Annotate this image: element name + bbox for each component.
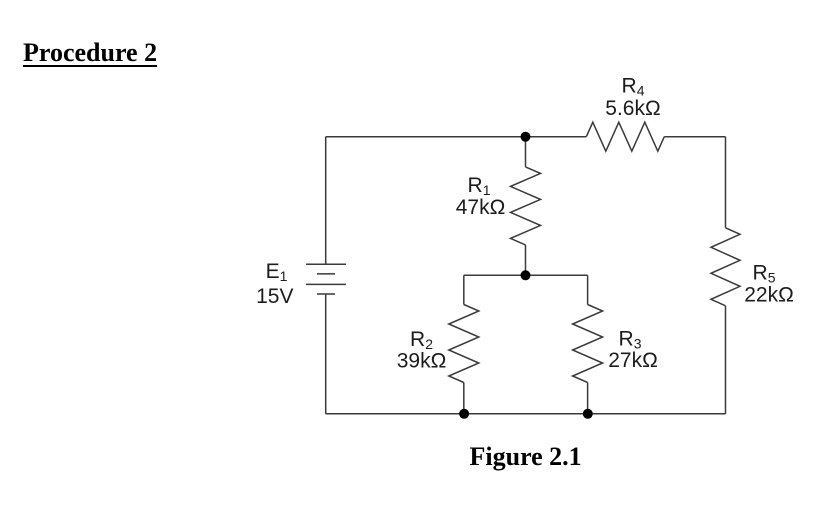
resistor R1 (511, 167, 541, 245)
svg-text:39kΩ: 39kΩ (397, 350, 447, 373)
resistor R2 (449, 305, 479, 383)
resistor R4 (586, 122, 664, 151)
wire R2 bottom lead (463, 383, 465, 414)
wire R1 bottom lead to node B (525, 245, 527, 275)
svg-text:27kΩ: 27kΩ (608, 349, 658, 372)
wire top rail right (R4 right lead to top-right corner) (664, 136, 725, 138)
caption Figure 2.1 (470, 442, 582, 472)
wire R3 bottom lead (587, 383, 589, 414)
node D junction dot (R3 bottom) (583, 409, 593, 419)
resistor R5 (711, 228, 740, 306)
node B junction dot (521, 270, 531, 280)
wire right rail lower (R5 bottom to bottom-right corner) (725, 306, 727, 414)
resistor R3 (573, 305, 603, 383)
svg-text:5.6kΩ: 5.6kΩ (605, 97, 660, 120)
wire right rail upper (corner down to R5 top) (725, 137, 727, 228)
wire top rail middle (node A to R4 left lead) (526, 136, 587, 138)
svg-text:R4: R4 (622, 75, 645, 99)
wire top rail left (top-left corner to node A) (326, 136, 526, 138)
wire left rail lower (bottom-left corner up to battery minus plate) (325, 294, 327, 414)
svg-text:R2: R2 (410, 328, 433, 352)
svg-text:R3: R3 (619, 328, 642, 352)
heading Procedure 2 (23, 40, 157, 68)
svg-text:R5: R5 (753, 262, 776, 286)
wire R2 top lead (463, 275, 465, 304)
svg-text:R1: R1 (468, 174, 491, 198)
svg-text:E1: E1 (266, 260, 288, 284)
battery E1 plates (306, 264, 346, 294)
node A junction dot (521, 132, 531, 142)
wire R3 top lead (587, 275, 589, 304)
wire node A to R1 top lead (525, 137, 527, 167)
wire node B horizontal rail (464, 274, 588, 276)
wire bottom rail (326, 413, 726, 415)
svg-text:15V: 15V (256, 285, 293, 308)
svg-text:22kΩ: 22kΩ (744, 284, 794, 307)
wire left rail upper (battery plus plate up to top-left corner) (325, 137, 327, 265)
node C junction dot (R2 bottom) (459, 409, 469, 419)
svg-text:47kΩ: 47kΩ (456, 196, 506, 219)
